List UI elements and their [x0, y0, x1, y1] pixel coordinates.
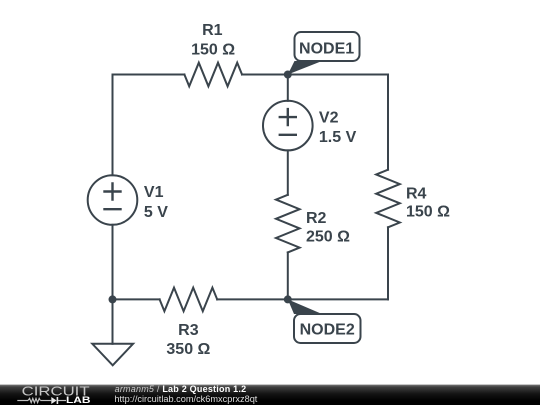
svg-text:LAB: LAB: [66, 395, 91, 405]
node NODE2 flag box: [294, 314, 361, 343]
svg-text:R4: R4: [406, 185, 427, 202]
node B junction dot NODE2: [284, 295, 292, 303]
svg-text:1.5 V: 1.5 V: [319, 129, 357, 146]
wire middle below R2: [287, 252, 289, 299]
logo wire left: [17, 400, 28, 402]
wire top horizontal left of R1: [113, 74, 185, 76]
logo wire middle: [40, 400, 51, 402]
svg-text:V1: V1: [144, 184, 164, 201]
wire bottom right of R3: [217, 298, 388, 300]
wire ground stem: [112, 299, 114, 343]
V2 minus sign: [280, 134, 296, 136]
node NODE2 flag pointer: [288, 299, 322, 314]
svg-text:150 Ω: 150 Ω: [406, 204, 450, 221]
node A junction dot NODE1: [284, 71, 292, 79]
junction dot left bottom: [109, 295, 117, 303]
svg-text:R3: R3: [178, 322, 199, 339]
svg-text:250 Ω: 250 Ω: [306, 229, 350, 246]
wire middle vertical above V2: [287, 75, 289, 101]
wire top horizontal right of R1: [242, 74, 388, 76]
footer bar: [0, 385, 540, 405]
node NODE1 flag pointer: [288, 61, 322, 75]
resistor R4: [376, 170, 400, 228]
logo diode: [51, 397, 56, 404]
wire left vertical below V1: [112, 225, 114, 300]
svg-text:NODE1: NODE1: [299, 40, 354, 57]
resistor R3: [160, 288, 218, 312]
ground: [92, 344, 133, 366]
wire middle between V2 and R2: [287, 150, 289, 194]
logo resistor: [28, 398, 40, 402]
svg-text:R2: R2: [306, 210, 327, 227]
node NODE1 flag box: [295, 32, 360, 61]
svg-text:http://circuitlab.com/ck6mxcpr: http://circuitlab.com/ck6mxcprxz8qt: [114, 394, 257, 404]
wire top-left vertical: [112, 75, 114, 176]
wire right vertical upper: [387, 75, 389, 170]
wire right vertical lower: [387, 227, 389, 299]
V1 plus sign: [105, 184, 121, 200]
resistor R2: [276, 195, 300, 253]
V2 plus sign: [280, 109, 296, 125]
svg-text:350 Ω: 350 Ω: [166, 341, 210, 358]
svg-text:V2: V2: [319, 110, 339, 127]
svg-text:150 Ω: 150 Ω: [191, 42, 235, 59]
voltage source V1 circle: [88, 175, 138, 225]
logo wire right: [58, 400, 66, 402]
svg-text:5 V: 5 V: [144, 204, 168, 221]
logo diode bar: [56, 397, 58, 404]
voltage source V2 circle: [263, 101, 313, 151]
V1 minus sign: [105, 208, 121, 210]
svg-text:armanm5 / Lab 2 Question 1.2: armanm5 / Lab 2 Question 1.2: [115, 384, 247, 394]
wire bottom left of R3: [113, 298, 160, 300]
svg-text:R1: R1: [202, 22, 223, 39]
svg-text:NODE2: NODE2: [300, 321, 355, 338]
resistor R1: [184, 63, 242, 87]
